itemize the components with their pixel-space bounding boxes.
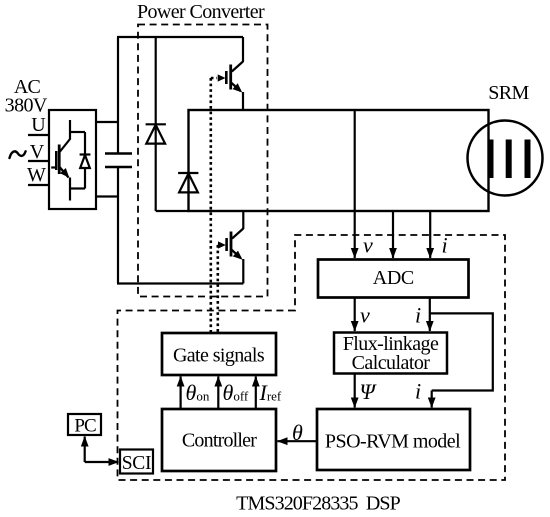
diode D1 [146, 124, 166, 143]
wire i sense line [429, 211, 431, 258]
wire bottom rail to phase block [156, 210, 189, 212]
dotted gate signal line to Q2 [218, 245, 219, 333]
svg-text:W: W [27, 164, 46, 186]
Flux-linkage Calculator box [334, 333, 447, 374]
svg-text:v: v [360, 303, 370, 328]
wire phase W lead [28, 184, 49, 186]
svg-text:SCI: SCI [122, 453, 151, 474]
IGBT Q2 [227, 211, 244, 284]
PC box [68, 414, 101, 435]
svg-text:V: V [30, 141, 45, 163]
svg-text:Iref: Iref [259, 380, 282, 405]
wire controller to gate signals theta-on [180, 377, 182, 410]
wire PC to SCI link [84, 437, 86, 463]
svg-text:θ: θ [292, 420, 303, 445]
wire v sense line [354, 110, 356, 258]
svg-text:i: i [415, 379, 421, 404]
svg-text:v: v [363, 233, 373, 258]
Controller box [162, 409, 276, 471]
svg-text:SRM: SRM [488, 82, 529, 104]
svg-text:PSO-RVM model: PSO-RVM model [325, 431, 461, 453]
label tilde AC symbol [10, 151, 26, 158]
svg-text:θoff: θoff [223, 380, 249, 405]
dashed box Power Converter [138, 25, 268, 297]
svg-text:PC: PC [74, 416, 96, 437]
Gate signals box [162, 333, 276, 375]
dotted gate signal line to Q1 [211, 78, 217, 333]
wire rectifier to DC bus top [96, 121, 119, 123]
rectifier module box [49, 110, 96, 209]
transistor inside rectifier (IGBT) [51, 120, 70, 201]
wire i bypass branch [430, 313, 493, 390]
svg-text:Gate signals: Gate signals [173, 345, 265, 367]
dashed box TMS320F28335 DSP [118, 235, 506, 480]
IGBT Q1 [226, 37, 243, 110]
wire rectifier to DC bus bottom [96, 195, 119, 197]
wire flux-linkage to PSO-RVM psi [354, 374, 356, 408]
wire theta PSO-RVM to Controller [278, 440, 318, 442]
SCI box [120, 450, 153, 474]
wire diode D1 branch [155, 37, 157, 211]
wire controller to gate signals I-ref [255, 377, 257, 410]
svg-text:Controller: Controller [182, 430, 257, 452]
wire middle sense line [392, 211, 394, 258]
diode D2 [178, 173, 198, 192]
wire DC bus left vertical [117, 37, 119, 154]
wire DC return bottom [117, 282, 243, 284]
wire ADC to flux-linkage v [354, 298, 356, 332]
wire phase V lead [28, 160, 49, 162]
svg-text:Calculator: Calculator [352, 352, 431, 374]
phase winding block [189, 110, 489, 211]
ADC box [318, 260, 469, 298]
capacitor C1 [105, 152, 132, 155]
svg-text:i: i [415, 303, 421, 328]
svg-text:TMS320F28335 DSP: TMS320F28335 DSP [236, 493, 400, 515]
wire DC bus top rail [117, 36, 243, 38]
SRM motor circle [468, 121, 543, 196]
wire controller to gate signals theta-off [217, 377, 219, 410]
svg-text:U: U [31, 114, 46, 136]
svg-text:i: i [442, 233, 448, 258]
svg-text:Ψ: Ψ [360, 379, 378, 404]
PSO-RVM model box [317, 409, 470, 470]
svg-text:ADC: ADC [373, 267, 414, 289]
wire phase U lead [28, 134, 49, 136]
wire ADC to flux-linkage i [429, 298, 431, 332]
svg-text:θon: θon [186, 380, 210, 405]
SRM stator bars [488, 140, 494, 179]
diode inside rectifier [70, 132, 90, 189]
svg-text:Power Converter: Power Converter [137, 1, 265, 23]
